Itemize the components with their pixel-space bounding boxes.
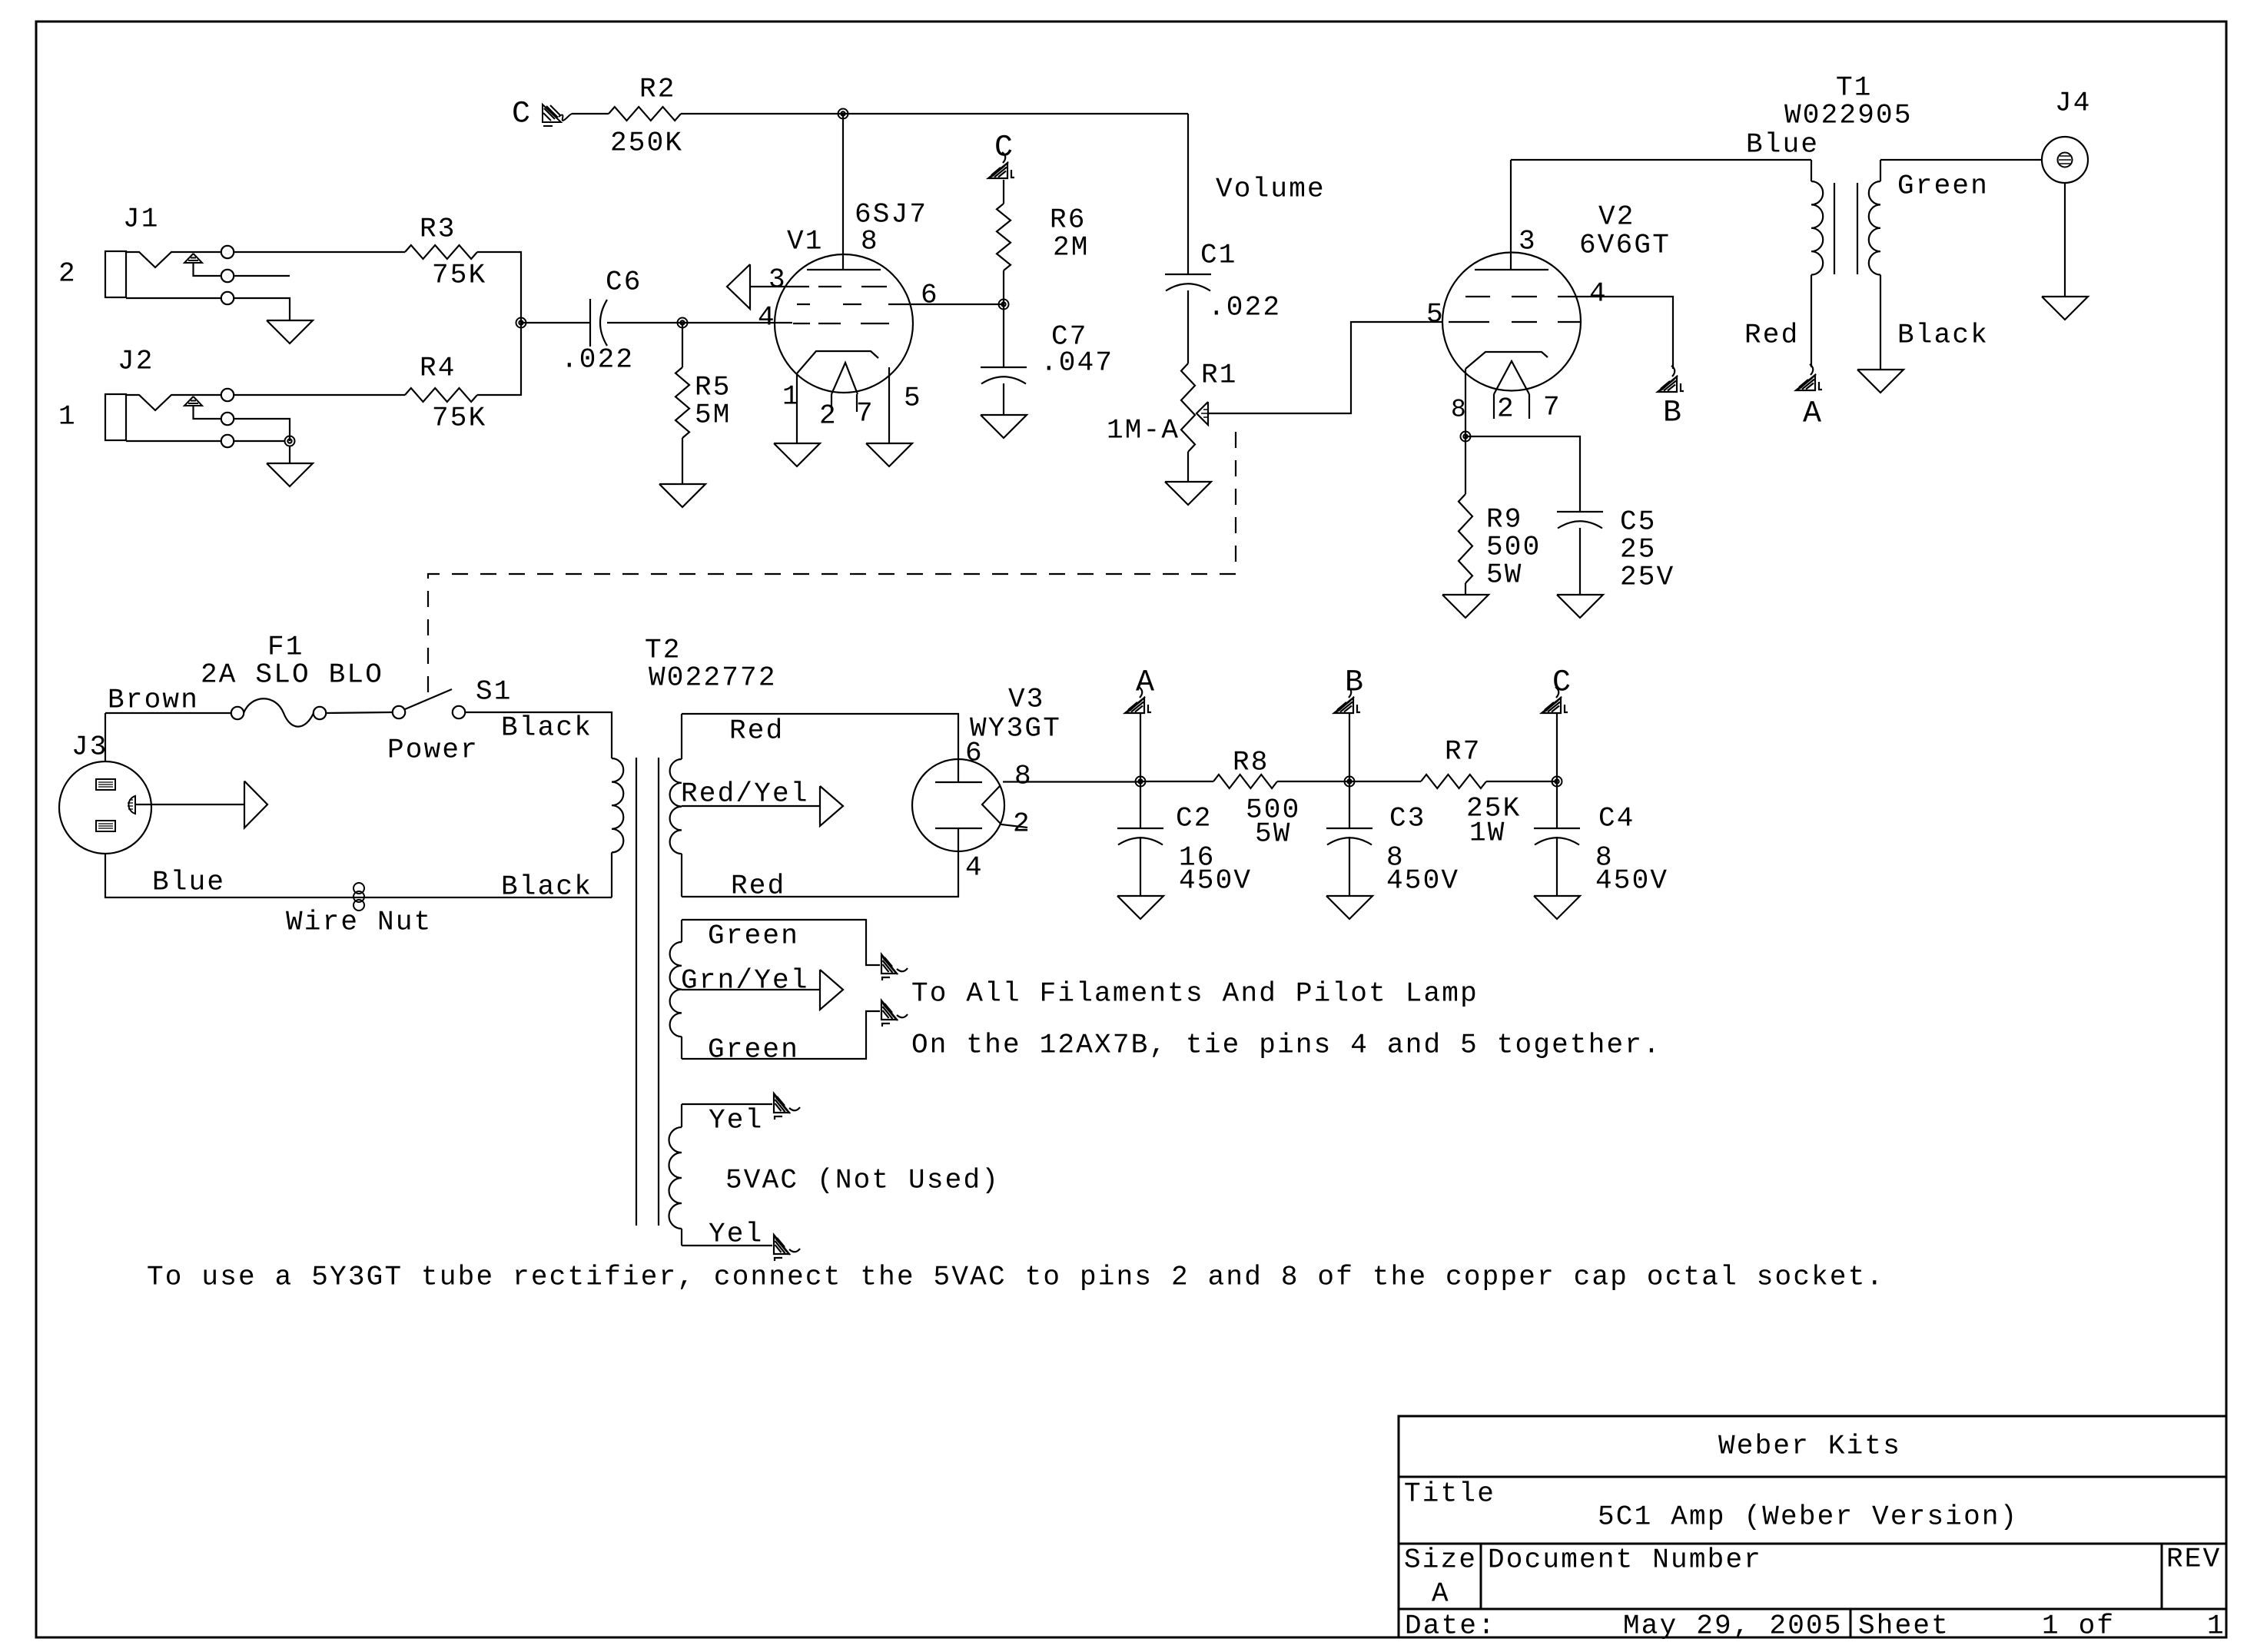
svg-text:2A SLO BLO: 2A SLO BLO [201, 659, 383, 691]
node C [1552, 777, 1562, 787]
svg-text:1M-A: 1M-A [1107, 415, 1180, 446]
node B [1345, 777, 1355, 787]
svg-text:4: 4 [1589, 278, 1608, 310]
J3 earth arrow [135, 781, 267, 828]
svg-text:A: A [1803, 396, 1823, 431]
V2 grid row2 [1449, 321, 1580, 323]
svg-text:C2: C2 [1176, 803, 1213, 834]
wire R8 to B [1277, 781, 1349, 782]
svg-text:C: C [1552, 665, 1572, 700]
transformer T2 labels [645, 635, 777, 694]
V1 plate bar [807, 269, 881, 270]
node pin6-R6-C7 [999, 300, 1009, 310]
svg-text:3: 3 [768, 264, 787, 296]
svg-text:5C1 Amp (Weber Version): 5C1 Amp (Weber Version) [1598, 1501, 2018, 1533]
capacitor C1 [1165, 240, 1281, 323]
svg-text:J1: J1 [123, 204, 160, 235]
label Black bottom [501, 871, 592, 903]
svg-text:Black: Black [501, 871, 592, 903]
5V top lead [682, 1104, 772, 1136]
svg-text:W022772: W022772 [649, 662, 777, 694]
node cathode [1461, 432, 1471, 442]
power flag C above C4 [1542, 665, 1572, 713]
label 5VAC [725, 1165, 1000, 1196]
svg-text:4: 4 [758, 302, 776, 333]
5V bottom lead [682, 1219, 772, 1250]
note 12AX7B [911, 1030, 1661, 1061]
svg-text:1W: 1W [1469, 818, 1506, 849]
jack J1 [105, 204, 290, 320]
wire A to R8 [1140, 781, 1213, 782]
svg-text:250K: 250K [610, 128, 683, 159]
svg-text:75K: 75K [432, 403, 486, 434]
svg-text:450V: 450V [1179, 865, 1252, 897]
svg-text:5: 5 [1426, 299, 1445, 330]
power flag C above R6 [988, 131, 1014, 178]
power flag B above C3 [1334, 665, 1365, 713]
T1 secondary [1869, 160, 1989, 370]
svg-text:5M: 5M [695, 400, 732, 431]
V2 pin8 label [1451, 396, 1468, 424]
svg-text:450V: 450V [1595, 865, 1668, 897]
svg-text:1 of: 1 of [2042, 1611, 2115, 1642]
svg-text:R7: R7 [1445, 736, 1482, 768]
svg-text:A: A [1432, 1578, 1450, 1610]
svg-text:W022905: W022905 [1784, 100, 1913, 131]
resistor R2 [609, 74, 683, 159]
svg-text:Sheet: Sheet [1858, 1611, 1950, 1642]
svg-text:C5: C5 [1620, 506, 1657, 538]
wire V3 pin8 to A node [1003, 781, 1140, 782]
wire R3 to junction [477, 252, 521, 323]
wire R4 to junction [477, 323, 521, 395]
V1 grid row control [793, 323, 889, 324]
svg-text:Power: Power [387, 735, 479, 766]
svg-text:Document Number: Document Number [1488, 1544, 1762, 1576]
V2 pin4 lead [1580, 278, 1673, 369]
wire flagC to R6 [1003, 180, 1004, 204]
svg-text:R9: R9 [1486, 504, 1523, 536]
svg-text:J2: J2 [118, 346, 154, 377]
svg-text:2M: 2M [1053, 232, 1090, 264]
svg-text:R3: R3 [420, 214, 456, 245]
capacitor C2 [1117, 781, 1252, 897]
svg-text:Red: Red [731, 871, 785, 902]
R9 ground [1442, 583, 1489, 618]
ganged dashed link [428, 432, 1236, 700]
V1 pin4 label [758, 302, 776, 333]
wire flagB to node [1349, 713, 1350, 781]
svg-text:5: 5 [904, 383, 922, 414]
svg-text:B: B [1663, 396, 1683, 430]
C5 ground [1557, 528, 1603, 618]
node grid-R5 [678, 318, 688, 328]
switch S1 [387, 676, 513, 766]
V1 pin1 ground [774, 373, 820, 466]
svg-text:S1: S1 [476, 676, 513, 708]
C4 ground [1534, 837, 1580, 919]
svg-text:T1: T1 [1836, 72, 1873, 104]
svg-text:4: 4 [965, 852, 984, 884]
size label [1404, 1544, 1477, 1610]
5V flag top [774, 1093, 800, 1120]
svg-text:WY3GT: WY3GT [970, 713, 1061, 745]
title label [1404, 1478, 1495, 1510]
svg-text:R8: R8 [1233, 747, 1270, 778]
R1 ground [1165, 452, 1211, 505]
svg-text:R6: R6 [1050, 204, 1087, 236]
tube V1 6SJ7 envelope [775, 199, 928, 393]
svg-text:1: 1 [782, 381, 801, 413]
wire C1 to R1 [1187, 290, 1189, 363]
wire V2 pin8 to cathode node [1465, 369, 1466, 436]
svg-text:1: 1 [2207, 1611, 2226, 1642]
svg-text:Black: Black [1897, 320, 1989, 351]
svg-text:25V: 25V [1620, 562, 1675, 593]
svg-text:1: 1 [58, 401, 77, 433]
wire nut [286, 883, 432, 938]
J2 ground [267, 446, 313, 486]
svg-text:V3: V3 [1008, 684, 1045, 715]
svg-text:Blue: Blue [152, 867, 225, 898]
wire node to C7 [1003, 304, 1004, 367]
svg-text:8: 8 [1014, 761, 1033, 792]
wire Blue V2 to T1 [1511, 129, 1819, 161]
svg-text:B: B [1345, 665, 1365, 700]
C3 ground [1326, 837, 1372, 919]
filament flag top [881, 954, 908, 980]
svg-text:REV: REV [2166, 1544, 2221, 1575]
wire grid node to V1 pin4 [682, 322, 792, 323]
capacitor C4 [1534, 781, 1668, 897]
svg-text:2: 2 [1497, 393, 1515, 425]
power flag B at V2 pin4 [1658, 366, 1684, 430]
V1 heater [819, 363, 875, 432]
svg-text:450V: 450V [1386, 865, 1459, 897]
svg-text:6V6GT: 6V6GT [1579, 230, 1671, 261]
transformer T1 labels [1784, 72, 1913, 131]
wire wiper to V2 pin5 [1208, 322, 1442, 413]
T2 core [636, 758, 659, 1226]
svg-text:.022: .022 [1208, 292, 1281, 323]
T1 core [1834, 183, 1857, 274]
svg-text:To use a 5Y3GT tube rectifier,: To use a 5Y3GT tube rectifier, connect t… [147, 1262, 1884, 1293]
svg-text:J4: J4 [2055, 88, 2092, 119]
svg-text:Yel: Yel [709, 1219, 763, 1250]
V1 pin3 lead with arrow [727, 264, 795, 309]
svg-text:Green: Green [1897, 171, 1989, 202]
wire flagC2 to node [1556, 713, 1558, 781]
V2 plate bar [1475, 269, 1548, 270]
svg-text:Yel: Yel [709, 1105, 763, 1136]
capacitor C5 [1557, 506, 1675, 593]
svg-text:Grn/Yel: Grn/Yel [681, 965, 809, 997]
potentiometer R1 [1107, 360, 1238, 452]
wire J3 to wire nut to T2 [105, 854, 612, 897]
svg-text:5VAC (Not Used): 5VAC (Not Used) [725, 1165, 1000, 1196]
V2 heater [1494, 361, 1562, 425]
wire Red bottom to V3 pin4 [682, 851, 958, 902]
svg-text:V1: V1 [787, 226, 824, 257]
V1 grid row screen [797, 304, 911, 305]
plug J3 [59, 713, 151, 854]
input channel 1 label [58, 401, 77, 433]
R1 wiper [1197, 402, 1208, 425]
svg-text:Volume: Volume [1216, 174, 1326, 205]
svg-text:C: C [994, 131, 1014, 165]
wire F1 to S1 [326, 712, 393, 713]
capacitor C7 [981, 321, 1114, 384]
rev label [2166, 1544, 2221, 1575]
svg-text:R4: R4 [420, 353, 456, 384]
filament bottom lead [682, 1011, 880, 1066]
svg-text:R5: R5 [695, 372, 732, 403]
V1 grid row suppressor [795, 286, 887, 287]
svg-text:75K: 75K [432, 260, 486, 291]
svg-text:F1: F1 [267, 632, 304, 663]
V3 plates [935, 759, 982, 851]
node R3-R4 [516, 318, 526, 328]
power flag A at T1 primary [1796, 364, 1823, 431]
wire junction to C6 [521, 322, 590, 323]
resistor R6 [997, 204, 1090, 270]
wire down to C1 [1187, 114, 1189, 274]
capacitor C3 [1326, 781, 1459, 897]
node plate-junction [838, 109, 848, 119]
R5 ground [659, 438, 705, 507]
jack J2 [105, 346, 290, 448]
date row [1405, 1611, 1843, 1642]
C2 ground [1117, 837, 1163, 919]
wire T1 to J4 [1880, 159, 2042, 161]
svg-text:C: C [512, 97, 532, 131]
svg-text:On the 12AX7B, tie pins 4 and: On the 12AX7B, tie pins 4 and 5 together… [911, 1030, 1661, 1061]
svg-text:Green: Green [708, 921, 799, 952]
wire node to C5 [1465, 436, 1580, 512]
svg-text:To All Filaments And Pilot Lam: To All Filaments And Pilot Lamp [911, 978, 1479, 1010]
T2 HV center tap [681, 778, 843, 826]
V2 grid row1 [1465, 296, 1580, 297]
svg-text:.022: .022 [561, 344, 634, 376]
power flag A above C2 [1125, 665, 1156, 713]
svg-text:V2: V2 [1598, 201, 1635, 233]
wire R7 to C [1486, 781, 1557, 782]
node A [1136, 777, 1146, 787]
wire V2 pin3 to Blue [1511, 160, 1537, 270]
label Black top [501, 712, 592, 744]
svg-text:C4: C4 [1598, 803, 1635, 834]
svg-text:25: 25 [1620, 534, 1657, 566]
note filaments [911, 978, 1479, 1010]
svg-text:Red/Yel: Red/Yel [681, 778, 809, 810]
svg-text:7: 7 [1543, 392, 1562, 423]
input channel 2 label [58, 258, 77, 290]
svg-text:3: 3 [1519, 226, 1537, 257]
svg-text:Blue: Blue [1746, 129, 1819, 161]
svg-text:Red: Red [1744, 320, 1799, 351]
svg-text:Green: Green [708, 1034, 799, 1066]
label Brown [108, 685, 199, 716]
svg-text:5W: 5W [1255, 818, 1292, 850]
tube V2 6V6GT envelope [1442, 201, 1671, 391]
svg-text:C3: C3 [1389, 803, 1426, 834]
T1 primary [1744, 160, 1823, 367]
svg-text:Title: Title [1404, 1478, 1495, 1510]
resistor R7 [1421, 736, 1521, 849]
C7 ground [981, 383, 1027, 438]
filament top lead [682, 920, 880, 965]
5V flag bottom [774, 1235, 800, 1261]
svg-text:May 29, 2005: May 29, 2005 [1623, 1611, 1843, 1642]
svg-text:Black: Black [501, 712, 592, 744]
T2 primary [612, 758, 623, 897]
wire R6 to pin6 node [1003, 270, 1004, 304]
svg-text:Size: Size [1404, 1544, 1477, 1576]
V1 pin6 lead [911, 280, 1004, 311]
wire V1 pin8 drop [842, 114, 844, 270]
T1 secondary ground [1857, 370, 1904, 393]
svg-text:6: 6 [921, 280, 939, 311]
V3 cathode notch [982, 786, 1027, 828]
V2 cathode [1465, 352, 1548, 369]
title block frame [1399, 1416, 2226, 1637]
capacitor C6 [561, 267, 642, 376]
wire B to R7 [1349, 781, 1421, 782]
wire C6 to grid node [607, 322, 682, 323]
svg-text:R1: R1 [1201, 360, 1238, 391]
fuse F1 [105, 632, 383, 727]
title company [1718, 1431, 1901, 1462]
wire flagA to node [1140, 713, 1141, 781]
svg-text:5W: 5W [1486, 559, 1523, 591]
resistor R4 [234, 353, 487, 434]
tube V3 WY3GT envelope [912, 684, 1061, 851]
svg-text:Brown: Brown [108, 685, 199, 716]
T2 filament winding [670, 920, 682, 1059]
svg-text:T2: T2 [645, 635, 682, 666]
V3 pin labels [965, 738, 1033, 884]
volume label [1216, 174, 1326, 205]
jack J4 [2042, 88, 2092, 183]
svg-text:C1: C1 [1200, 240, 1237, 271]
svg-text:6: 6 [965, 738, 984, 769]
resistor R9 [1459, 436, 1541, 591]
svg-text:.047: .047 [1041, 347, 1114, 379]
wire R2 to C1 top (plate net) [681, 113, 1188, 114]
svg-text:2: 2 [58, 258, 77, 290]
V2 pin5 label [1426, 299, 1445, 330]
sheet row [1858, 1611, 2226, 1642]
svg-text:J3: J3 [71, 731, 108, 763]
filament center tap [681, 965, 843, 1010]
svg-text:Weber Kits: Weber Kits [1718, 1431, 1901, 1462]
svg-text:Wire Nut: Wire Nut [286, 907, 432, 938]
resistor R3 [234, 214, 487, 291]
svg-text:500: 500 [1486, 532, 1541, 563]
svg-text:2: 2 [819, 400, 838, 432]
document number label [1488, 1544, 1762, 1576]
svg-text:R2: R2 [639, 74, 676, 105]
wire Red top to V3 pin6 [682, 714, 958, 759]
power flag C (input to R2) [512, 97, 573, 131]
title name [1598, 1501, 2018, 1533]
resistor R8 [1213, 747, 1300, 850]
svg-text:Red: Red [729, 715, 784, 747]
V1 pin5 ground [866, 367, 922, 466]
J1 sleeve ground [267, 320, 313, 343]
svg-text:Date:: Date: [1405, 1611, 1496, 1642]
svg-text:7: 7 [856, 398, 875, 430]
J4 ground [2042, 183, 2088, 320]
J2 sleeve node [285, 436, 295, 446]
wire C flag to R2 [572, 113, 609, 114]
svg-text:8: 8 [861, 226, 879, 257]
filament flag bottom [881, 1000, 908, 1027]
V1 cathode [797, 351, 878, 373]
label Blue [152, 867, 225, 898]
T2 5V winding [669, 1104, 682, 1246]
resistor R5 [675, 323, 732, 438]
T2 HV secondary [670, 714, 682, 897]
svg-text:A: A [1136, 665, 1156, 700]
svg-text:C6: C6 [606, 267, 642, 298]
svg-text:2: 2 [1013, 808, 1031, 840]
note rectifier [147, 1262, 1884, 1293]
wire S1 to T2 [465, 712, 612, 758]
